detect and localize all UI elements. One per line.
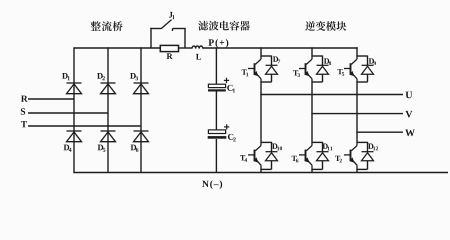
diode D4 xyxy=(67,131,82,142)
label S input xyxy=(21,108,25,114)
diode D7 xyxy=(266,65,278,74)
resistor R xyxy=(160,45,178,51)
diode D11 wire xyxy=(322,142,324,152)
wire T5 loop bottom xyxy=(357,81,368,83)
polarity + of C1 xyxy=(224,78,229,83)
wire inverter leg 1 to N bus xyxy=(260,169,262,173)
wire S input line xyxy=(28,112,108,114)
diode D5 xyxy=(101,131,116,142)
wire T4 loop bottom xyxy=(261,168,272,170)
wire inverter leg 2 drop from P bus xyxy=(311,47,313,56)
diode D12 wire xyxy=(367,142,369,152)
label T4 xyxy=(240,155,247,162)
wire T5 loop top xyxy=(357,55,368,57)
inductor L xyxy=(192,46,203,49)
wire T1 loop bottom xyxy=(261,81,272,83)
label D8 xyxy=(324,58,331,65)
wire P bus right segment xyxy=(203,47,358,49)
label 整流桥 (rectifier bridge) xyxy=(91,21,123,31)
label W xyxy=(405,129,415,136)
label T2 xyxy=(335,156,342,163)
label 逆变模块 (inverter module) xyxy=(305,21,346,31)
label D11 xyxy=(323,144,333,151)
wire phase U line xyxy=(260,94,403,96)
label T3 xyxy=(293,70,300,77)
wire inverter leg 2 to N bus xyxy=(311,169,313,173)
wire T2 loop top xyxy=(357,141,368,143)
diode D10 xyxy=(266,152,278,161)
transistor T3 xyxy=(299,56,312,82)
wire T6 loop top xyxy=(312,141,323,143)
label D3 xyxy=(130,73,138,80)
wire relay loop right riser xyxy=(184,28,186,48)
wire capacitor column top xyxy=(215,47,217,84)
wire phase V line xyxy=(311,113,403,115)
transistor T4 xyxy=(248,142,261,169)
wire T4 loop top xyxy=(261,141,272,143)
diode D9 xyxy=(362,65,374,74)
wire inverter leg 2 mid vertical xyxy=(311,81,313,142)
capacitor C1 xyxy=(208,84,225,87)
wire T3 loop bottom xyxy=(312,81,323,83)
wire bridge column 1 xyxy=(73,47,75,172)
wire relay loop top right xyxy=(173,28,186,30)
label 滤波电容器 (filter capacitor) xyxy=(198,21,250,31)
switch J1 right contact tick xyxy=(172,29,174,32)
label node N(-) xyxy=(202,180,222,189)
wire relay loop left riser xyxy=(150,28,152,48)
transistor T5 xyxy=(344,56,357,82)
wire T2 loop bottom xyxy=(357,168,368,170)
label D1 xyxy=(62,73,70,80)
label D12 xyxy=(368,144,378,151)
wire inverter leg 1 drop from P bus xyxy=(260,47,262,56)
wire relay loop top left xyxy=(150,28,161,30)
wire T1 loop top xyxy=(261,55,272,57)
label node P(+) xyxy=(208,39,228,48)
label C2 xyxy=(228,134,236,142)
wire R input line xyxy=(28,98,74,100)
transistor T6 xyxy=(299,142,312,169)
wire P bus between R and L xyxy=(178,47,192,49)
label V xyxy=(405,111,412,118)
wire T6 loop bottom xyxy=(312,168,323,170)
label T1 xyxy=(242,70,249,77)
label R resistor xyxy=(167,53,173,59)
wire inverter leg 1 mid vertical xyxy=(260,81,262,142)
transistor T1 xyxy=(248,56,261,82)
capacitor C2 xyxy=(208,130,225,134)
label D7 xyxy=(273,57,280,64)
label T5 xyxy=(337,69,344,76)
polarity + of C2 xyxy=(224,124,229,129)
diode D8 xyxy=(317,65,329,74)
diode D9 wire xyxy=(367,56,369,66)
wire capacitor column middle xyxy=(215,91,217,130)
diode D12 xyxy=(362,152,374,161)
wire inverter leg 3 drop from P bus xyxy=(356,47,358,56)
label D9 xyxy=(369,58,376,65)
diode D7 wire xyxy=(271,56,273,66)
diode D11 xyxy=(317,152,329,161)
diode D8 wire xyxy=(322,56,324,66)
label U xyxy=(406,92,413,99)
wire P bus left segment xyxy=(74,47,161,49)
label D6 xyxy=(131,145,139,152)
diode D1 xyxy=(67,83,82,94)
label D5 xyxy=(98,145,106,152)
wire bridge column 3 xyxy=(140,47,142,172)
label D4 xyxy=(64,145,72,152)
switch J1 lever xyxy=(161,20,172,29)
label D10 xyxy=(272,144,282,151)
label J1 xyxy=(169,12,175,19)
wire inverter leg 3 mid vertical xyxy=(356,81,358,142)
label R input xyxy=(21,96,28,102)
wire phase W line xyxy=(356,131,403,133)
wire bridge column 2 xyxy=(107,47,109,172)
wire N bus xyxy=(73,172,448,174)
wire inverter leg 3 to N bus xyxy=(356,169,358,173)
diode D3 xyxy=(134,83,149,94)
transistor T2 xyxy=(344,142,357,169)
label D2 xyxy=(97,73,105,80)
label T6 xyxy=(292,156,299,163)
wire capacitor column bottom xyxy=(215,139,217,173)
wire T input line xyxy=(28,125,141,127)
label C1 xyxy=(227,85,235,93)
wire T3 loop top xyxy=(312,55,323,57)
diode D10 wire xyxy=(271,142,273,152)
label L inductor xyxy=(196,54,201,60)
diode D6 xyxy=(134,131,149,142)
label T input xyxy=(21,121,27,127)
diode D2 xyxy=(101,83,116,94)
